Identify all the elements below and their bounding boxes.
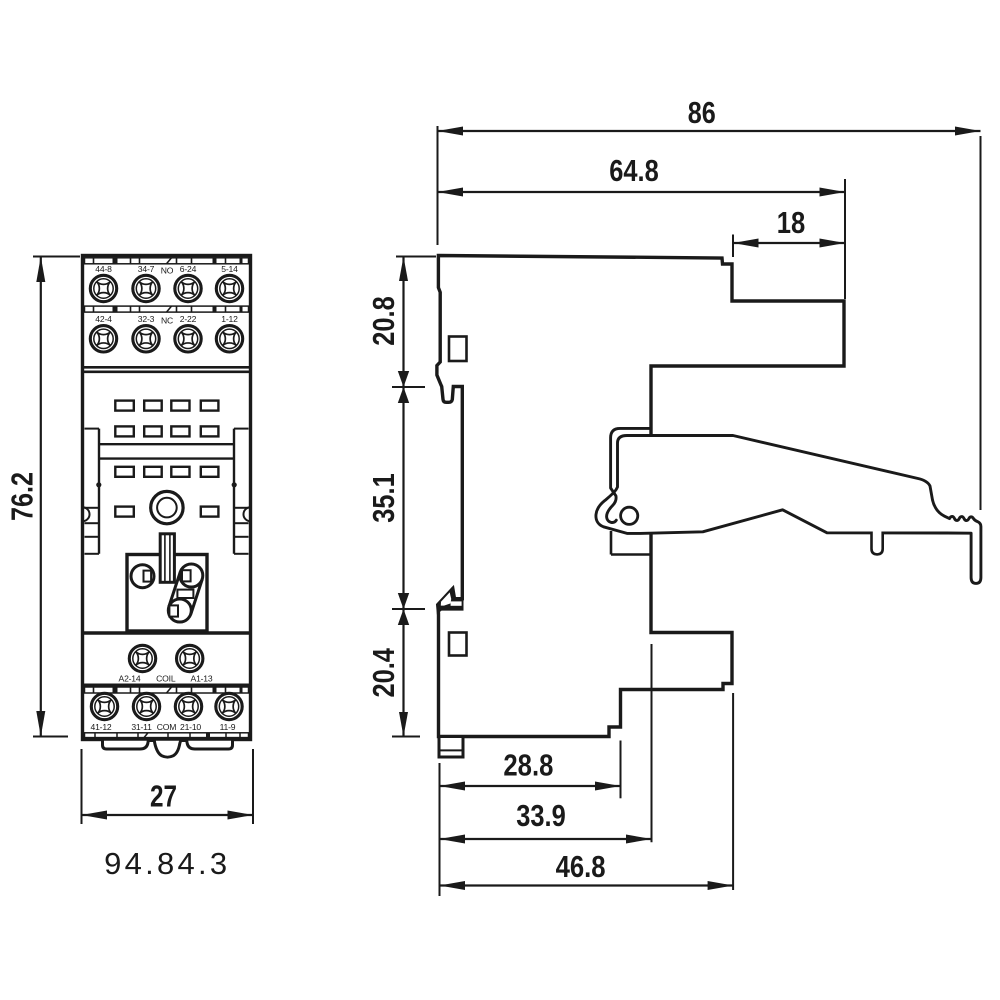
screw terminal 6-24 bbox=[175, 275, 201, 301]
svg-text:64.8: 64.8 bbox=[609, 153, 659, 188]
svg-text:1-12: 1-12 bbox=[221, 314, 238, 324]
svg-text:A2-14: A2-14 bbox=[119, 674, 141, 684]
screw terminal 42-4 bbox=[90, 326, 116, 352]
model number 94.84.3 bbox=[104, 846, 227, 881]
screw terminal 44-8 bbox=[90, 275, 116, 301]
svg-text:94.84.3: 94.84.3 bbox=[104, 846, 227, 881]
svg-text:20.4: 20.4 bbox=[366, 647, 401, 697]
dim chain 20.8 / 35.1 / 20.4 bbox=[366, 257, 436, 737]
socket body outline bbox=[83, 256, 251, 740]
right side flange bbox=[232, 429, 251, 554]
lower marking strip bbox=[85, 687, 249, 693]
bottom terminal labels bbox=[91, 722, 236, 732]
svg-text:33.9: 33.9 bbox=[516, 798, 566, 833]
svg-text:5-14: 5-14 bbox=[221, 264, 238, 274]
screw terminal 11-9 bbox=[216, 693, 242, 719]
screw terminal 41-12 bbox=[91, 693, 117, 719]
svg-text:34-7: 34-7 bbox=[138, 264, 155, 274]
svg-text:28.8: 28.8 bbox=[503, 747, 553, 782]
coil screw A1 bbox=[177, 645, 203, 671]
svg-text:42-4: 42-4 bbox=[95, 314, 112, 324]
dim 46.8 bbox=[440, 693, 734, 890]
dim 33.9 bbox=[440, 644, 652, 844]
dim 76.2 bbox=[5, 257, 81, 737]
screw terminal 31-11 bbox=[133, 693, 159, 719]
clip pin bbox=[872, 531, 883, 554]
screw terminal 2-22 bbox=[175, 326, 201, 352]
DIN rail clip bracket (front view bottom) bbox=[84, 739, 251, 757]
clip pivot hole bbox=[621, 507, 638, 524]
clip inner wall line bbox=[607, 428, 651, 522]
dim 28.8 bbox=[440, 741, 621, 897]
svg-text:35.1: 35.1 bbox=[366, 473, 401, 523]
contact slot row C bbox=[115, 467, 218, 477]
svg-text:COM: COM bbox=[157, 722, 176, 732]
cross bar bbox=[99, 444, 234, 458]
svg-text:86: 86 bbox=[688, 95, 716, 130]
left side flange bbox=[83, 429, 102, 554]
svg-text:2-22: 2-22 bbox=[180, 314, 197, 324]
contact slot row A bbox=[115, 401, 218, 411]
svg-text:76.2: 76.2 bbox=[5, 472, 40, 521]
svg-text:46.8: 46.8 bbox=[556, 849, 606, 884]
svg-text:27: 27 bbox=[150, 779, 177, 814]
coil screw A2 bbox=[129, 645, 155, 671]
vertical slot bbox=[160, 534, 174, 583]
retainer latch box bbox=[127, 555, 207, 632]
svg-text:31-11: 31-11 bbox=[131, 722, 152, 732]
svg-text:11-9: 11-9 bbox=[220, 722, 236, 732]
middle marking strip bbox=[85, 306, 249, 312]
svg-text:32-3: 32-3 bbox=[138, 314, 155, 324]
svg-text:COIL: COIL bbox=[156, 674, 176, 684]
svg-text:18: 18 bbox=[777, 205, 806, 240]
svg-text:21-10: 21-10 bbox=[180, 722, 201, 732]
svg-text:44-8: 44-8 bbox=[95, 264, 112, 274]
center hole bbox=[151, 491, 183, 523]
dim 86 bbox=[438, 95, 981, 510]
screw terminal 32-3 bbox=[133, 326, 159, 352]
screw terminal 21-10 bbox=[175, 693, 201, 719]
dim 18 bbox=[733, 205, 845, 257]
svg-text:20.8: 20.8 bbox=[366, 296, 401, 346]
line below coil section bbox=[84, 684, 251, 687]
svg-text:41-12: 41-12 bbox=[91, 722, 112, 732]
release clip lever (side view) bbox=[596, 428, 981, 583]
svg-text:NC: NC bbox=[161, 316, 173, 326]
double separator line below terminals bbox=[84, 367, 251, 372]
lower rail-clip window bbox=[449, 633, 467, 656]
top marking strip bbox=[85, 258, 249, 264]
svg-text:NO: NO bbox=[161, 266, 174, 276]
bottom marking strip bbox=[85, 733, 249, 738]
svg-text:6-24: 6-24 bbox=[180, 264, 197, 274]
mounting foot bbox=[439, 737, 463, 758]
latch left circle bbox=[131, 565, 154, 588]
clip pocket on body bbox=[611, 531, 651, 555]
terminal labels row 1 bbox=[95, 264, 238, 276]
lower claw detail bbox=[437, 586, 464, 614]
contact slot row B bbox=[115, 426, 218, 436]
dim 64.8 bbox=[438, 153, 846, 299]
coil labels bbox=[119, 674, 213, 684]
terminal labels row 2 bbox=[95, 314, 238, 326]
screw terminal 5-14 bbox=[216, 275, 242, 301]
upper rail-clip window bbox=[449, 337, 467, 362]
contact slot row D (outer pair) bbox=[115, 507, 218, 517]
dim 27 bbox=[82, 749, 254, 824]
svg-text:A1-13: A1-13 bbox=[191, 674, 213, 684]
screw terminal 1-12 bbox=[216, 326, 242, 352]
side body profile bbox=[437, 256, 844, 737]
latch lever belt bbox=[168, 564, 203, 622]
screw terminal 34-7 bbox=[133, 275, 159, 301]
section line above coil terminals bbox=[84, 631, 251, 634]
